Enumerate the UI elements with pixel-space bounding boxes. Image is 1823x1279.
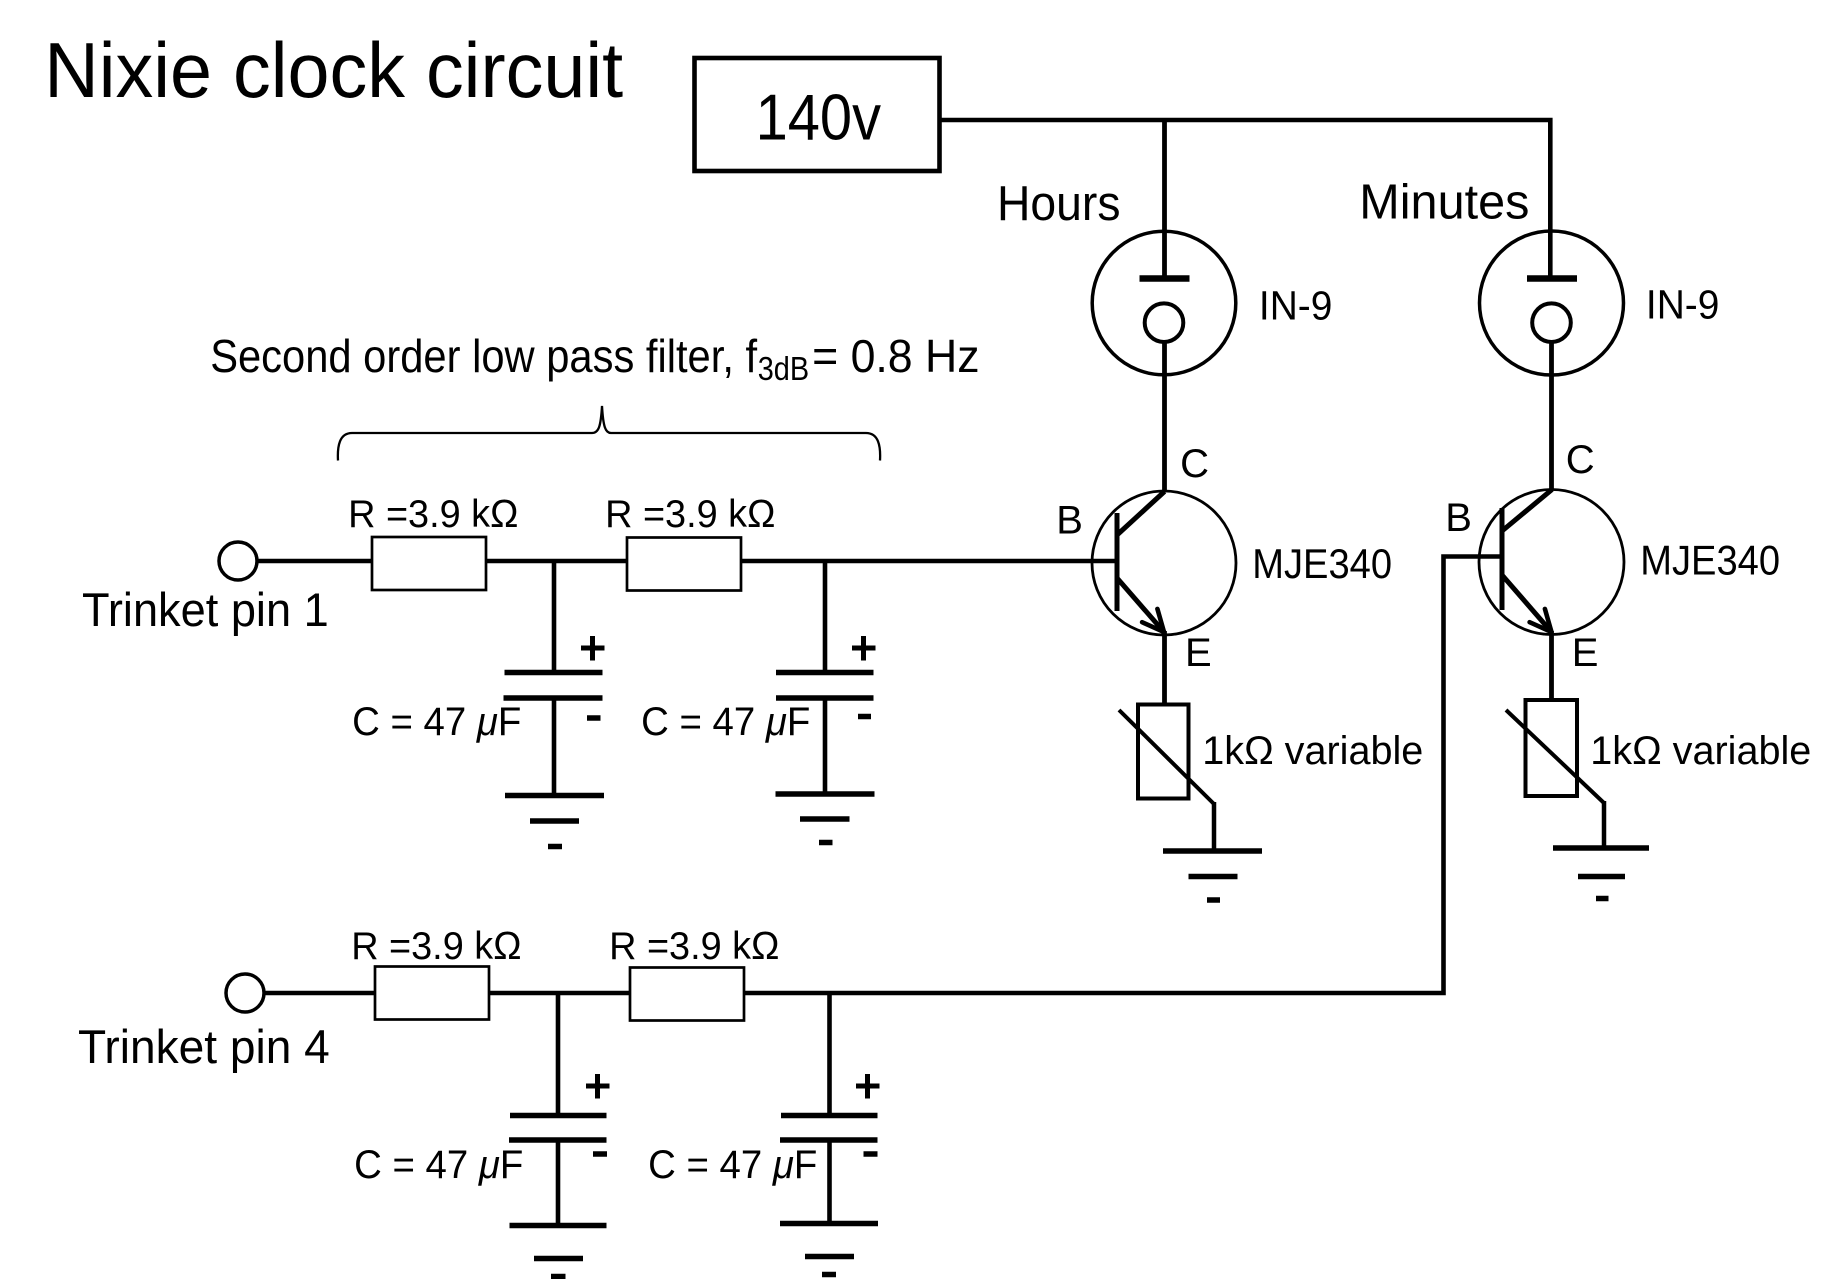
wire: hours anode drop xyxy=(1162,120,1167,278)
wire: C3 to ground xyxy=(556,1142,561,1226)
resistor R2 3.9k xyxy=(627,538,741,591)
wire: R5 to ground xyxy=(1212,802,1217,851)
nixie tube V1 IN-9 (Hours) xyxy=(1092,231,1236,375)
wire: C2 to ground xyxy=(823,700,828,794)
wire: Q1 emitter to R5 xyxy=(1162,631,1167,705)
svg-text:B: B xyxy=(1056,499,1083,543)
svg-text:1kΩ variable: 1kΩ variable xyxy=(1590,729,1811,773)
polarity - (C2) xyxy=(858,714,871,720)
svg-text:C: C xyxy=(1566,438,1595,482)
wire: R6 to ground xyxy=(1602,801,1607,848)
label: R =3.9 kOhm (R2) xyxy=(605,493,775,536)
transistor Q2 MJE340 (minutes) xyxy=(1479,490,1624,635)
polarity + (C1) xyxy=(581,636,605,661)
wire: V1 cathode to Q1 collector xyxy=(1162,342,1167,492)
ground (C1) xyxy=(505,796,604,847)
capacitor C4 47uF xyxy=(780,1116,878,1141)
wire: node C to C3 xyxy=(556,991,561,1115)
svg-text:Second order low pass filter,: Second order low pass filter, f xyxy=(210,330,757,382)
svg-text:B: B xyxy=(1445,496,1472,540)
label: C = 47 uF (C2) xyxy=(641,700,810,744)
input terminal: Trinket pin 1 xyxy=(219,542,257,580)
wire: R2 to Q1 base (node B) xyxy=(741,559,1117,564)
wire: 140v bus to minutes drop xyxy=(940,120,1551,278)
ground (hours emitter) xyxy=(1163,851,1262,900)
variable resistor R5 1k (hours) xyxy=(1119,705,1214,805)
ground (C4) xyxy=(780,1224,878,1275)
resistor R4 3.9k xyxy=(630,968,744,1021)
svg-text:C = 47 μF: C = 47 μF xyxy=(354,1143,523,1187)
svg-text:140v: 140v xyxy=(756,81,882,154)
wire: node B to C2 xyxy=(823,559,828,672)
svg-text:R =3.9 kΩ: R =3.9 kΩ xyxy=(609,925,779,968)
svg-text:Trinket pin 1: Trinket pin 1 xyxy=(82,583,329,636)
label: R =3.9 kOhm (R1) xyxy=(348,493,518,536)
transistor Q1 MJE340 (hours) xyxy=(1092,491,1236,635)
polarity - (C3) xyxy=(593,1151,607,1157)
label: Hours xyxy=(997,177,1121,231)
polarity - (C1) xyxy=(587,715,601,721)
capacitor C2 47uF xyxy=(776,673,874,699)
svg-text:Hours: Hours xyxy=(997,177,1121,231)
resistor R1 3.9k xyxy=(372,537,486,590)
label: B (Q1 base) xyxy=(1056,499,1083,543)
svg-text:MJE340: MJE340 xyxy=(1252,540,1392,587)
label: C = 47 uF (C3) xyxy=(354,1143,523,1187)
label: Trinket pin 4 xyxy=(78,1020,330,1073)
label: E (Q1 emitter) xyxy=(1185,631,1212,675)
capacitor C1 47uF xyxy=(504,673,603,699)
svg-text:= 0.8 Hz: = 0.8 Hz xyxy=(812,330,980,382)
label: C = 47 uF (C4) xyxy=(648,1143,817,1187)
nixie tube V2 IN-9 (Minutes) xyxy=(1480,231,1624,375)
label: C = 47 uF (C1) xyxy=(352,700,521,744)
power supply 140v box xyxy=(695,58,940,171)
label: MJE340 (Q1) xyxy=(1252,540,1392,587)
svg-text:Minutes: Minutes xyxy=(1359,176,1529,230)
wire: R4 output to Q2 base (node D riser) xyxy=(744,557,1502,994)
polarity + (C3) xyxy=(586,1074,610,1099)
wire: node A to C1 xyxy=(552,559,557,672)
wire: R3 to R4 (node C) xyxy=(489,991,630,996)
label: R =3.9 kOhm (R4) xyxy=(609,925,779,968)
wire: node D to C4 xyxy=(827,991,832,1115)
svg-text:IN-9: IN-9 xyxy=(1259,283,1333,329)
capacitor C3 47uF xyxy=(509,1116,607,1141)
ground (minutes emitter) xyxy=(1553,848,1649,899)
wire: R1 to R2 (node A) xyxy=(486,559,627,564)
input terminal: Trinket pin 4 xyxy=(226,974,264,1012)
label: C (Q2 collector) xyxy=(1566,438,1595,482)
wire: Q2 emitter to R6 xyxy=(1549,631,1554,701)
wire: V2 cathode to Q2 collector xyxy=(1549,342,1554,490)
svg-text:C: C xyxy=(1180,442,1209,486)
label: R =3.9 kOhm (R3) xyxy=(351,925,521,968)
label: 1k ohm variable (hours) xyxy=(1202,729,1423,773)
label: B (Q2 base) xyxy=(1445,496,1472,540)
svg-text:C = 47 μF: C = 47 μF xyxy=(641,700,810,744)
wire: terminal 4 to R3 xyxy=(264,991,375,996)
svg-text:C = 47 μF: C = 47 μF xyxy=(648,1143,817,1187)
label: 1k ohm variable (minutes) xyxy=(1590,729,1811,773)
label: MJE340 (Q2) xyxy=(1640,537,1780,584)
label: IN-9 (minutes) xyxy=(1646,282,1720,328)
svg-text:E: E xyxy=(1572,631,1599,675)
label: Second order low pass filter, f3dB = 0.8 Hz xyxy=(210,330,979,387)
wire: terminal 1 to R1 xyxy=(257,559,372,564)
svg-text:IN-9: IN-9 xyxy=(1646,282,1720,328)
annotation brace (filter extent) xyxy=(338,406,880,461)
polarity + (C2) xyxy=(852,636,876,661)
title: Nixie clock circuit xyxy=(44,26,623,114)
ground (C3) xyxy=(510,1226,607,1277)
ground (C2) xyxy=(776,794,875,843)
svg-text:E: E xyxy=(1185,631,1212,675)
wire: C4 to ground xyxy=(827,1142,832,1224)
svg-text:Trinket pin 4: Trinket pin 4 xyxy=(78,1020,330,1073)
svg-text:R =3.9 kΩ: R =3.9 kΩ xyxy=(605,493,775,536)
svg-text:3dB: 3dB xyxy=(758,350,809,387)
label: IN-9 (hours) xyxy=(1259,283,1333,329)
svg-text:R =3.9 kΩ: R =3.9 kΩ xyxy=(348,493,518,536)
label: Trinket pin 1 xyxy=(82,583,329,636)
svg-text:Nixie clock circuit: Nixie clock circuit xyxy=(44,26,623,114)
variable resistor R6 1k (minutes) xyxy=(1506,700,1604,803)
polarity - (C4) xyxy=(864,1151,878,1157)
wire: C1 to ground xyxy=(552,700,557,796)
label: Minutes xyxy=(1359,176,1529,230)
svg-text:R =3.9 kΩ: R =3.9 kΩ xyxy=(351,925,521,968)
resistor R3 3.9k xyxy=(375,967,489,1020)
label: E (Q2 emitter) xyxy=(1572,631,1599,675)
svg-text:MJE340: MJE340 xyxy=(1640,537,1780,584)
label: C (Q1 collector) xyxy=(1180,442,1209,486)
svg-text:1kΩ variable: 1kΩ variable xyxy=(1202,729,1423,773)
polarity + (C4) xyxy=(856,1074,880,1099)
svg-text:C = 47 μF: C = 47 μF xyxy=(352,700,521,744)
